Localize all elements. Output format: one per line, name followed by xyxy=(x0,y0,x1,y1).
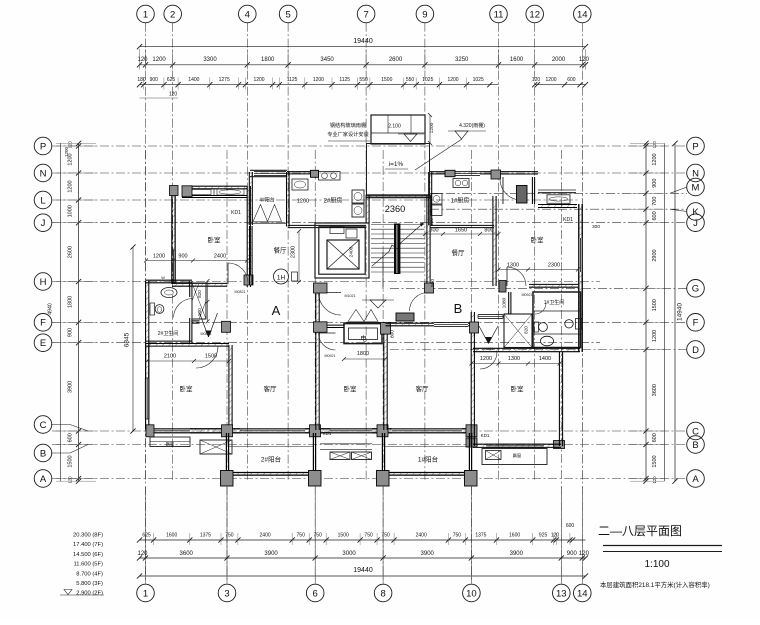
bedroom A2 walls with entry door xyxy=(145,343,232,430)
bedroom B1 bay window KD1 xyxy=(538,190,577,208)
hatched pier kitchen A top xyxy=(311,170,319,177)
bottom grid bubbles 1 3 6 8 10 13 14 xyxy=(137,487,591,602)
top dimension row 2 (detail) xyxy=(137,77,588,98)
svg-text:1200: 1200 xyxy=(429,122,435,133)
svg-text:300: 300 xyxy=(592,224,600,230)
svg-text:1#卫生间: 1#卫生间 xyxy=(544,299,565,306)
svg-text:120: 120 xyxy=(169,92,178,98)
svg-text:120: 120 xyxy=(579,57,590,63)
svg-text:2300: 2300 xyxy=(548,263,560,269)
svg-text:卧室: 卧室 xyxy=(208,235,222,244)
svg-text:1200: 1200 xyxy=(545,77,556,83)
middle bedroom walls and door xyxy=(316,283,387,430)
svg-text:1200: 1200 xyxy=(68,180,74,192)
svg-text:钢结构玻璃雨棚: 钢结构玻璃雨棚 xyxy=(330,121,366,129)
pier at lobby west upper xyxy=(314,283,328,293)
svg-text:2400: 2400 xyxy=(416,533,427,539)
column axis10 lower xyxy=(466,438,477,447)
svg-text:3900: 3900 xyxy=(264,551,278,557)
svg-text:120: 120 xyxy=(551,533,560,539)
top grid bubbles 1 2 4 5 7 9 11 12 14 xyxy=(137,5,591,23)
interior dim line B2 xyxy=(469,362,561,366)
svg-text:餐厅: 餐厅 xyxy=(274,246,288,255)
svg-text:1200: 1200 xyxy=(652,330,658,342)
svg-text:KD1: KD1 xyxy=(231,210,241,216)
svg-text:8: 8 xyxy=(380,588,385,599)
svg-text:C: C xyxy=(40,420,47,431)
svg-text:G: G xyxy=(692,284,699,295)
svg-text:1500: 1500 xyxy=(68,455,74,467)
svg-text:900: 900 xyxy=(150,77,159,83)
hatched pier kitchen B xyxy=(445,170,455,176)
svg-text:卧室: 卧室 xyxy=(344,384,358,393)
svg-text:750: 750 xyxy=(364,533,373,539)
svg-text:1600: 1600 xyxy=(166,533,177,539)
svg-text:客厅: 客厅 xyxy=(416,384,430,393)
svg-text:KD1: KD1 xyxy=(563,217,573,223)
svg-text:800: 800 xyxy=(429,228,438,234)
service balcony 4#阳台 xyxy=(249,170,289,226)
svg-text:二—八层平面图: 二—八层平面图 xyxy=(598,524,682,538)
svg-text:3000: 3000 xyxy=(342,551,356,557)
canopy note xyxy=(327,121,370,141)
svg-text:4.320(雨棚): 4.320(雨棚) xyxy=(459,122,485,129)
svg-text:3250: 3250 xyxy=(455,57,469,63)
svg-text:120: 120 xyxy=(137,551,148,557)
svg-text:3450: 3450 xyxy=(320,57,334,63)
svg-text:1200: 1200 xyxy=(313,77,324,83)
svg-text:KD1: KD1 xyxy=(323,431,332,436)
svg-text:3900: 3900 xyxy=(421,551,435,557)
top dimension row (axis spacings) xyxy=(137,49,590,70)
column on axis 6 south wall xyxy=(310,425,321,437)
hall A partition with door xyxy=(192,313,218,337)
svg-text:750: 750 xyxy=(225,533,234,539)
south wall bedroom B1 with door xyxy=(507,267,578,287)
svg-text:1200: 1200 xyxy=(480,356,492,362)
svg-text:5.800 (3F): 5.800 (3F) xyxy=(76,581,103,587)
svg-text:2#卫生间: 2#卫生间 xyxy=(158,330,179,337)
svg-text:120: 120 xyxy=(68,476,73,484)
svg-text:600: 600 xyxy=(566,523,575,529)
svg-text:客厅: 客厅 xyxy=(264,384,278,393)
svg-text:M0921: M0921 xyxy=(325,354,336,358)
svg-text:2.100: 2.100 xyxy=(388,124,401,130)
left dimension column xyxy=(48,141,97,484)
svg-text:卧室: 卧室 xyxy=(180,384,194,393)
svg-text:600: 600 xyxy=(567,77,576,83)
svg-text:1400: 1400 xyxy=(188,77,199,83)
planter boxes below middle bedroom xyxy=(320,443,372,445)
right grid bubbles xyxy=(670,137,704,487)
svg-text:F: F xyxy=(693,318,699,329)
svg-text:1800: 1800 xyxy=(261,57,275,63)
svg-text:300: 300 xyxy=(429,218,434,226)
column on axis 3 south wall xyxy=(222,425,233,437)
svg-text:A: A xyxy=(40,474,47,485)
svg-text:800: 800 xyxy=(390,330,396,338)
svg-text:4: 4 xyxy=(245,9,250,20)
svg-text:1:100: 1:100 xyxy=(644,559,669,570)
svg-text:5: 5 xyxy=(285,9,290,20)
svg-text:750: 750 xyxy=(453,533,462,539)
svg-text:1125: 1125 xyxy=(287,77,298,83)
bottom dimension row 2 (axis spacings) xyxy=(137,551,590,561)
svg-text:A: A xyxy=(692,474,699,485)
svg-text:1125: 1125 xyxy=(339,77,350,83)
svg-text:3600: 3600 xyxy=(180,551,194,557)
svg-text:750: 750 xyxy=(381,533,390,539)
kitchen 1#厨房 xyxy=(429,172,494,228)
svg-text:3900: 3900 xyxy=(68,381,74,393)
interior dim line middle xyxy=(342,357,387,361)
svg-text:2100: 2100 xyxy=(164,354,176,360)
svg-text:1200: 1200 xyxy=(447,77,458,83)
svg-text:1#厨房: 1#厨房 xyxy=(451,197,470,205)
svg-text:2000: 2000 xyxy=(552,57,566,63)
svg-text:1000: 1000 xyxy=(68,205,74,217)
svg-text:1H: 1H xyxy=(277,275,286,282)
overall right dimension 14940 xyxy=(672,141,683,484)
svg-text:1375: 1375 xyxy=(475,533,486,539)
svg-text:750: 750 xyxy=(297,533,306,539)
svg-text:14940: 14940 xyxy=(677,303,684,321)
svg-text:1025: 1025 xyxy=(473,77,484,83)
entrance canopy with level 2.100 xyxy=(371,115,425,144)
svg-text:550: 550 xyxy=(359,77,368,83)
svg-text:2#阳台: 2#阳台 xyxy=(261,455,281,464)
svg-text:M0821: M0821 xyxy=(483,347,494,351)
right dimension column xyxy=(630,141,664,484)
interior vertical dimension 6845 xyxy=(124,244,136,433)
kitchen 2#厨房 counters xyxy=(287,172,340,191)
svg-text:2400: 2400 xyxy=(214,254,226,260)
svg-text:1375: 1375 xyxy=(200,533,211,539)
interior dim line B1 xyxy=(497,268,581,272)
svg-text:1200: 1200 xyxy=(152,57,166,63)
svg-text:625: 625 xyxy=(142,533,151,539)
svg-text:1200: 1200 xyxy=(153,254,165,260)
service balcony 3# with washer xyxy=(500,172,538,204)
west wall of bedroom A1 with window xyxy=(172,186,176,284)
pier hall A xyxy=(222,321,231,332)
svg-text:1: 1 xyxy=(143,9,148,20)
pier living B NE xyxy=(470,322,479,333)
svg-text:N: N xyxy=(692,168,699,179)
svg-text:1200: 1200 xyxy=(297,199,309,205)
svg-text:900: 900 xyxy=(178,254,187,260)
svg-text:20.300 (8F): 20.300 (8F) xyxy=(73,533,103,539)
svg-text:2900: 2900 xyxy=(652,249,658,261)
svg-text:625: 625 xyxy=(167,77,176,83)
yard window between living B and bathroom xyxy=(478,315,503,319)
column at A1 NW corner xyxy=(170,186,179,196)
wall bedroom A1 / balcony 4# xyxy=(246,186,248,287)
svg-text:1200: 1200 xyxy=(253,77,264,83)
svg-text:900: 900 xyxy=(652,179,658,188)
vertical grid axis lines xyxy=(146,23,583,582)
svg-text:M0821: M0821 xyxy=(201,332,212,336)
svg-text:E: E xyxy=(40,338,46,349)
svg-text:120: 120 xyxy=(532,77,541,83)
svg-text:飘窗: 飘窗 xyxy=(166,441,174,448)
bathroom 1#卫生间 xyxy=(504,292,582,348)
svg-text:6845: 6845 xyxy=(124,332,131,347)
svg-text:1080: 1080 xyxy=(502,297,508,308)
svg-text:A: A xyxy=(272,303,281,318)
svg-text:19440: 19440 xyxy=(353,567,373,574)
column on axis 10 south wall xyxy=(466,425,477,437)
svg-text:600: 600 xyxy=(652,211,658,220)
svg-text:19440: 19440 xyxy=(353,38,373,45)
svg-text:M1021: M1021 xyxy=(345,294,356,298)
balcony pillar 2e xyxy=(309,471,322,487)
svg-text:820: 820 xyxy=(524,326,529,334)
duct shaft beside bathroom A xyxy=(192,283,206,319)
svg-text:电: 电 xyxy=(360,334,367,343)
dim 2300 dining A rotated xyxy=(291,229,302,284)
south facade wall with windows xyxy=(146,429,472,433)
svg-text:9: 9 xyxy=(422,9,427,20)
entry lobby doors, level marker, intercom xyxy=(319,293,429,323)
svg-text:600: 600 xyxy=(652,433,658,442)
svg-text:550: 550 xyxy=(406,77,415,83)
roof level 4.320 xyxy=(415,122,486,170)
svg-text:14: 14 xyxy=(577,9,588,20)
svg-text:2400: 2400 xyxy=(260,533,271,539)
svg-text:2300: 2300 xyxy=(291,246,297,258)
kitchen A appliances xyxy=(352,190,364,203)
horizontal grid axis lines xyxy=(52,146,687,479)
svg-text:2#厨房: 2#厨房 xyxy=(324,197,343,205)
svg-text:卧室: 卧室 xyxy=(531,235,545,244)
svg-text:M0821: M0821 xyxy=(235,290,246,294)
balcony pillar 1w xyxy=(377,471,390,487)
svg-text:1650: 1650 xyxy=(455,228,467,234)
svg-text:P: P xyxy=(40,141,46,152)
svg-text:2: 2 xyxy=(170,9,175,20)
svg-text:120: 120 xyxy=(579,551,590,557)
svg-text:900: 900 xyxy=(197,308,202,316)
svg-text:11.600 (5F): 11.600 (5F) xyxy=(73,562,103,568)
duct vertical dims 820 900 xyxy=(197,279,210,323)
svg-text:H: H xyxy=(40,277,47,288)
svg-text:餐厅: 餐厅 xyxy=(452,248,466,257)
living room B walls with door xyxy=(386,312,499,446)
column right of A1 door xyxy=(244,275,253,285)
overall top dimension 19440 xyxy=(137,38,588,49)
svg-text:W: W xyxy=(161,276,165,280)
svg-text:P: P xyxy=(692,141,698,152)
column on axis 8 south wall xyxy=(377,425,388,437)
west wall dining A xyxy=(249,226,251,285)
overall bottom dimension 19440 xyxy=(137,567,588,579)
balcony 1#阳台 xyxy=(382,433,471,475)
bathroom 2#卫生间 walls and door xyxy=(146,280,192,343)
svg-text:1800: 1800 xyxy=(357,351,369,357)
svg-text:750: 750 xyxy=(314,533,323,539)
pier at closet strip west xyxy=(182,186,192,197)
canopy dim 1200 xyxy=(428,113,435,145)
svg-text:F: F xyxy=(40,318,46,329)
balcony pillar 1e xyxy=(465,471,478,487)
svg-text:14: 14 xyxy=(577,588,588,599)
svg-text:120: 120 xyxy=(652,476,657,484)
svg-text:B: B xyxy=(40,448,46,459)
svg-text:M0921: M0921 xyxy=(522,293,533,297)
svg-text:J: J xyxy=(41,218,46,229)
svg-text:600: 600 xyxy=(68,433,74,442)
svg-text:本层建筑面积218.1平方米(计入容积率): 本层建筑面积218.1平方米(计入容积率) xyxy=(600,580,710,589)
pier at lobby west xyxy=(314,322,328,333)
svg-text:2400: 2400 xyxy=(349,246,355,257)
svg-text:1600: 1600 xyxy=(509,533,520,539)
svg-text:3900: 3900 xyxy=(510,551,524,557)
bathroom A sink xyxy=(161,288,177,298)
balcony pillar 2w xyxy=(221,471,234,487)
svg-text:1500: 1500 xyxy=(381,77,392,83)
svg-text:4940: 4940 xyxy=(48,303,54,315)
svg-text:2360: 2360 xyxy=(385,204,405,214)
svg-text:925: 925 xyxy=(539,533,548,539)
floor level table xyxy=(60,533,104,597)
svg-text:B: B xyxy=(692,440,698,451)
svg-text:卧室: 卧室 xyxy=(511,384,525,393)
svg-text:2600: 2600 xyxy=(389,57,403,63)
column kitchen B NE xyxy=(491,170,501,179)
svg-text:700: 700 xyxy=(652,197,658,206)
svg-text:1: 1 xyxy=(143,588,148,599)
svg-text:1600: 1600 xyxy=(510,57,524,63)
svg-text:D: D xyxy=(692,345,699,356)
svg-text:1300: 1300 xyxy=(508,356,520,362)
column B2 SE corner xyxy=(554,441,565,449)
svg-text:14.500 (6F): 14.500 (6F) xyxy=(73,552,103,558)
svg-text:2600: 2600 xyxy=(68,246,74,258)
svg-text:180: 180 xyxy=(137,77,146,83)
svg-text:120: 120 xyxy=(652,141,657,149)
svg-text:B: B xyxy=(454,301,463,316)
svg-text:3600: 3600 xyxy=(652,384,658,396)
svg-text:1#阳台: 1#阳台 xyxy=(418,455,438,464)
balcony 2#阳台 xyxy=(226,433,315,475)
svg-text:N: N xyxy=(40,168,47,179)
svg-text:3: 3 xyxy=(224,588,229,599)
title underline xyxy=(603,546,722,552)
svg-text:i=1%: i=1% xyxy=(389,161,404,168)
svg-text:1500: 1500 xyxy=(652,455,658,467)
svg-text:1300: 1300 xyxy=(507,263,519,269)
bedroom B2 walls xyxy=(473,348,580,447)
interior dim line kitchen B xyxy=(423,232,501,236)
svg-text:1800: 1800 xyxy=(68,296,74,308)
svg-text:8.700 (4F): 8.700 (4F) xyxy=(76,571,103,577)
svg-text:KD1: KD1 xyxy=(481,433,490,438)
svg-text:1500: 1500 xyxy=(205,354,217,360)
column SW corner xyxy=(146,425,154,437)
svg-text:6: 6 xyxy=(313,588,318,599)
svg-text:1500: 1500 xyxy=(338,533,349,539)
elevator shaft xyxy=(315,223,369,278)
svg-text:K: K xyxy=(692,207,699,218)
svg-text:120: 120 xyxy=(137,57,148,63)
svg-text:12: 12 xyxy=(529,9,540,20)
svg-text:2.900 (2F): 2.900 (2F) xyxy=(76,591,103,597)
pier stair SE xyxy=(425,283,434,293)
bay window strip below bedroom B2 xyxy=(482,449,547,465)
svg-text:1500: 1500 xyxy=(652,299,658,311)
svg-text:1025: 1025 xyxy=(422,77,433,83)
svg-text:专业厂家设计安装: 专业厂家设计安装 xyxy=(327,130,369,138)
planter box with X brace (left) xyxy=(200,440,232,454)
svg-text:1200: 1200 xyxy=(652,153,658,165)
sloped roof i=1% xyxy=(367,144,430,197)
bathroom A toilet xyxy=(150,303,155,315)
svg-text:1200: 1200 xyxy=(64,146,69,157)
svg-text:17.400 (7F): 17.400 (7F) xyxy=(73,542,103,548)
pier mid-bedroom NE xyxy=(381,323,391,335)
svg-text:900: 900 xyxy=(68,328,74,337)
svg-text:900: 900 xyxy=(567,551,578,557)
bedroom B1 west wall / east facade xyxy=(493,196,583,352)
wall kitchen A / dining A xyxy=(288,224,366,226)
svg-text:13: 13 xyxy=(556,588,567,599)
south wall of bedroom A1 with door xyxy=(172,263,248,286)
svg-text:飘窗: 飘窗 xyxy=(513,452,521,459)
svg-text:500: 500 xyxy=(430,279,436,287)
svg-text:L: L xyxy=(40,195,45,206)
svg-text:1275: 1275 xyxy=(219,77,230,83)
closet strip / north wall of bedroom A1 xyxy=(182,186,247,197)
svg-text:11: 11 xyxy=(494,9,504,20)
left grid bubbles xyxy=(34,137,88,487)
svg-text:820: 820 xyxy=(197,290,202,298)
svg-text:1400: 1400 xyxy=(539,356,551,362)
pier at B corridor xyxy=(499,281,506,293)
door tag circle 1H xyxy=(274,269,289,284)
staircase xyxy=(366,195,430,292)
bay window below bedroom A2 xyxy=(150,437,190,447)
svg-text:800: 800 xyxy=(484,228,493,234)
interior dim line A1 xyxy=(144,259,249,263)
bottom dimension row 1 (detail) xyxy=(137,523,586,545)
svg-text:3300: 3300 xyxy=(203,57,217,63)
interior dim line A2 xyxy=(145,359,231,363)
svg-text:M: M xyxy=(692,182,700,193)
electric room 电 xyxy=(344,324,382,344)
svg-text:10: 10 xyxy=(466,588,477,599)
svg-text:4#阳台: 4#阳台 xyxy=(259,197,275,204)
svg-text:7: 7 xyxy=(363,9,368,20)
